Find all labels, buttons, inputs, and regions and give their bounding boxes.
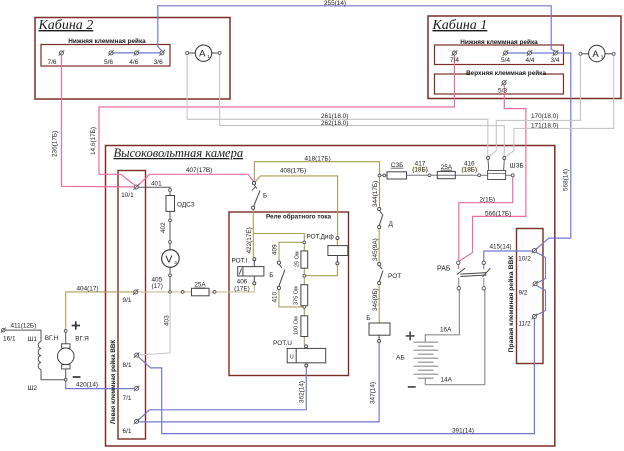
svg-text:404(17): 404(17) — [77, 286, 99, 293]
svg-text:418(17Б): 418(17Б) — [305, 155, 331, 162]
svg-text:7/6: 7/6 — [47, 59, 56, 66]
wire 415(14) blue from РАБ to terminal 10/2 — [484, 251, 533, 261]
svg-text:409: 409 — [271, 244, 278, 255]
wire 407(17В) pink from 10/1 to switch Б junction — [99, 174, 135, 185]
svg-text:5/4: 5/4 — [501, 57, 510, 64]
wire 408(17Б) olive from switch Б junction to coil РОТ.Диф — [255, 176, 338, 237]
svg-text:347(14): 347(14) — [370, 382, 377, 404]
high-voltage chamber box — [106, 146, 555, 447]
svg-text:АБ: АБ — [396, 354, 405, 361]
label 416 (18Б) — [461, 166, 478, 172]
svg-text:407(17В): 407(17В) — [186, 167, 212, 174]
battery АБ — [414, 341, 439, 343]
svg-text:236(17Б): 236(17Б) — [52, 131, 59, 157]
svg-text:7/4: 7/4 — [450, 57, 459, 64]
svg-text:9/1: 9/1 — [122, 297, 131, 304]
terminal 8/1 — [134, 352, 140, 358]
svg-text:255(14): 255(14) — [324, 0, 346, 7]
wire 347(14) blue from coil Б to terminal 6/1 — [139, 342, 379, 422]
shunt ШЗБ — [488, 171, 506, 180]
svg-text:408(17Б): 408(17Б) — [280, 168, 306, 175]
wire 566(17Б) pink from terminal 5/3 to contactor РАБ — [459, 85, 526, 262]
svg-text:Высоковольтная камера: Высоковольтная камера — [114, 146, 244, 160]
fuse 25А left — [181, 291, 184, 294]
minus sign battery — [408, 386, 416, 388]
fuse 25А right — [437, 171, 455, 178]
wire 344(17Б) olive from СЗБ node to switch Д — [379, 177, 381, 208]
svg-text:Б: Б — [269, 272, 273, 279]
wire 236(17Б) pink from terminal 7/6 to terminal 10/1 — [62, 55, 135, 187]
svg-text:100 Ом: 100 Ом — [294, 316, 300, 335]
resistor 375 Ом — [301, 285, 308, 306]
svg-text:Ш2: Ш2 — [28, 385, 38, 392]
svg-text:345(9А): 345(9А) — [372, 238, 379, 261]
terminal 10/2 — [532, 248, 538, 254]
generator armature ВГ.Я — [64, 330, 67, 333]
wire СЗБ to fuse to shunt horizontal — [381, 174, 387, 176]
wire 420(14) blue from generator minus to terminal 7/1 — [66, 381, 135, 389]
svg-text:Кабина 1: Кабина 1 — [432, 18, 488, 33]
resistor 100 Ом — [301, 316, 308, 337]
switch Д — [378, 207, 381, 210]
terminal 9/2 — [532, 281, 538, 287]
terminal 16/1 — [1, 328, 6, 333]
label 417 (18Б) — [412, 166, 429, 172]
switch РОТ — [378, 263, 381, 266]
svg-text:415(14): 415(14) — [490, 243, 512, 250]
svg-text:375 Ом: 375 Ом — [294, 286, 300, 305]
reverse current relay box — [229, 212, 349, 376]
terminal 11/2 — [532, 314, 538, 320]
svg-text:171(18.0): 171(18.0) — [531, 123, 558, 130]
svg-text:Кабина 2: Кабина 2 — [38, 18, 94, 33]
svg-text:9/2: 9/2 — [518, 290, 527, 297]
wire 170(18.0) grey from shunt to cabin1 ammeter — [489, 55, 580, 157]
svg-text:РОТ.Диф: РОТ.Диф — [307, 234, 334, 241]
svg-text:2(1Б): 2(1Б) — [480, 197, 496, 204]
wire 2(1Б) pink from shunt ШЗБ to contactor РАБ — [459, 177, 513, 261]
node below 25 Ом — [303, 274, 306, 277]
wire 391(14) blue from 11/2 to terminal 8/1 — [138, 318, 534, 433]
svg-text:ВГ.Я: ВГ.Я — [75, 335, 89, 342]
terminal 5/6 — [108, 50, 114, 56]
wire 404(17) olive from generator plus to terminal 9/1 — [66, 292, 134, 330]
coil РОТ.U — [305, 345, 308, 348]
wire 402 black from ОДСЗ to voltmeter — [169, 222, 171, 241]
label cabin1 upper strip — [470, 70, 543, 76]
wire 409 olive from node to switch Б2 — [279, 242, 304, 261]
left terminal rail box — [118, 171, 146, 440]
wire 401 black from 10/1 to resistor ОДСЗ — [138, 187, 170, 188]
svg-text:Нижняя клеммная рейка: Нижняя клеммная рейка — [68, 37, 146, 45]
svg-text:25А: 25А — [194, 282, 206, 289]
svg-text:362(14): 362(14) — [298, 381, 305, 403]
generator field winding ВГ.Н — [38, 342, 41, 370]
wire 410 olive from switch Б2 to resistor node — [279, 290, 304, 307]
svg-text:566(17Б): 566(17Б) — [485, 210, 511, 217]
svg-text:Реле обратного тока: Реле обратного тока — [266, 213, 332, 221]
wire 406(17Е) olive from fuse to coil РОТ.I — [209, 285, 254, 292]
svg-text:403: 403 — [163, 315, 170, 326]
ammeter A1 cabin 2 — [186, 52, 189, 55]
svg-text:3/6: 3/6 — [154, 59, 163, 66]
svg-text:16А: 16А — [440, 326, 452, 333]
svg-text:7/1: 7/1 — [122, 395, 131, 402]
wire 345(9А) olive from switch Д to switch РОТ — [378, 229, 380, 263]
switch Б2 in relay box — [277, 261, 280, 264]
wire 362(14) blue from coil РОТ.U to terminal 6/1 — [138, 367, 306, 420]
svg-text:4/6: 4/6 — [129, 59, 138, 66]
terminal 5/3 — [501, 80, 507, 86]
svg-text:406: 406 — [237, 278, 248, 285]
cabin 1 enclosure box — [428, 16, 621, 99]
minus sign generator — [73, 376, 81, 378]
contactor РАБ — [458, 265, 460, 270]
terminal 4/4 — [527, 50, 533, 56]
svg-text:Правая клеммная рейка ВВК: Правая клеммная рейка ВВК — [507, 255, 515, 353]
svg-text:РОТ.U: РОТ.U — [273, 340, 292, 347]
wire 411(12Б) from terminal 16/1 to winding ВГ.Н — [5, 330, 41, 341]
svg-text:346(9Б): 346(9Б) — [372, 288, 379, 311]
svg-text:Б: Б — [263, 193, 267, 200]
resistor СЗБ — [378, 174, 381, 177]
svg-text:420(14): 420(14) — [76, 381, 98, 388]
svg-text:262(18.0): 262(18.0) — [321, 120, 348, 127]
wire blue zigzag 10/2 to 9/2 to 11/2 — [536, 252, 546, 283]
wire 403 grey from voltmeter junction to terminal 8/1 — [138, 292, 170, 355]
terminal 6/1 — [134, 419, 140, 425]
svg-text:Д: Д — [389, 221, 394, 228]
plus sign battery — [406, 335, 415, 337]
plus sign generator — [72, 325, 80, 327]
svg-text:РОТ: РОТ — [388, 273, 401, 280]
coil Б — [369, 323, 390, 335]
svg-text:391(14): 391(14) — [452, 427, 474, 434]
svg-text:ВГ.Н: ВГ.Н — [45, 335, 59, 342]
svg-text:ОДСЗ: ОДСЗ — [177, 202, 195, 209]
wire 405(17) olive from 9/1 through voltmeter junction to fuse — [138, 291, 192, 293]
wire resistor chain vertical — [303, 242, 305, 251]
svg-text:РАБ: РАБ — [437, 266, 451, 273]
svg-text:ШЗБ: ШЗБ — [510, 162, 524, 169]
node above 25 Ом — [303, 241, 306, 244]
svg-text:СЗБ: СЗБ — [391, 162, 404, 169]
svg-text:5/6: 5/6 — [104, 59, 113, 66]
svg-text:Левая клеммная рейка ВВК: Левая клеммная рейка ВВК — [110, 340, 117, 425]
svg-text:10/2: 10/2 — [518, 256, 531, 263]
svg-text:401: 401 — [151, 180, 162, 187]
ammeter A1 cabin 1 — [579, 52, 582, 55]
svg-text:6/1: 6/1 — [122, 428, 131, 435]
terminal 5/4 — [503, 50, 509, 56]
wire 16А grey from battery plus to РАБ — [425, 290, 459, 342]
terminal 3/4 — [553, 50, 559, 56]
svg-text:(18Б): (18Б) — [412, 166, 428, 173]
cabin 2 lower terminal strip box — [41, 45, 170, 67]
svg-text:А: А — [199, 49, 206, 60]
svg-text:U: U — [290, 355, 294, 361]
wire blue link 5/6-4/6-3/6 — [111, 52, 162, 54]
resistor 25 Ом — [301, 251, 308, 268]
wire 418(17Б) olive from switch Б junction to СЗБ node — [254, 162, 379, 182]
wire 261(18.0) grey from cabin2 ammeter to shunt — [187, 55, 488, 157]
node voltmeter junction — [169, 291, 172, 294]
svg-text:Верхняя клеммная рейка: Верхняя клеммная рейка — [466, 69, 546, 77]
svg-text:344(17Б): 344(17Б) — [372, 181, 379, 207]
cabin 1 lower terminal strip box — [435, 45, 564, 65]
terminal 3/6 — [159, 50, 165, 56]
cabin 2 enclosure box — [35, 18, 230, 100]
wire 568(14) blue from 3/4 down to terminal 10/2 — [536, 53, 571, 249]
voltmeter V3 — [169, 241, 172, 244]
node below 375 Ом — [303, 306, 306, 309]
svg-text:А: А — [592, 49, 599, 60]
svg-text:Б: Б — [366, 315, 370, 322]
svg-text:4/4: 4/4 — [525, 57, 534, 64]
wire from node to coil РОТ.Диф bottom — [304, 265, 337, 276]
svg-text:14,6(17Б): 14,6(17Б) — [90, 127, 97, 155]
wire 262(18.0) grey from cabin2 ammeter to shunt — [220, 55, 505, 157]
svg-text:(17): (17) — [152, 283, 163, 290]
wire 171(18.0) grey from shunt to cabin1 ammeter — [505, 55, 613, 157]
wire 14А grey from battery minus to РАБ — [425, 290, 485, 385]
svg-text:568(14): 568(14) — [563, 169, 570, 191]
svg-text:РОТ.I: РОТ.I — [232, 258, 248, 265]
svg-text:11/2: 11/2 — [518, 321, 531, 328]
wire voltmeter to junction — [169, 243, 171, 292]
svg-text:10/1: 10/1 — [121, 192, 134, 199]
switch Б main arm — [254, 185, 257, 189]
coil РОТ.I — [253, 258, 256, 261]
svg-text:411(12Б): 411(12Б) — [11, 323, 37, 330]
svg-text:16/1: 16/1 — [3, 336, 16, 343]
wire 14,6(17Б) pink from terminal 7/4 across to high-voltage chamber — [99, 55, 454, 174]
svg-text:25 Ом: 25 Ом — [295, 251, 301, 267]
wire blue link 5/4-4/4-3/4 — [506, 52, 556, 54]
svg-text:V: V — [165, 254, 172, 266]
svg-text:8/1: 8/1 — [122, 362, 131, 369]
wire 346(9Б) olive from switch РОТ to coil Б — [378, 285, 380, 323]
wire 422(17Е) olive from switch Б to coil РОТ.I — [252, 209, 254, 257]
svg-text:14А: 14А — [441, 376, 453, 383]
terminal 7/4 — [452, 50, 458, 56]
switch Б junction node — [252, 182, 255, 185]
svg-text:3/4: 3/4 — [550, 57, 559, 64]
terminal 4/6 — [134, 50, 140, 56]
svg-text:(17Е): (17Е) — [234, 285, 250, 292]
svg-text:422(17Е): 422(17Е) — [246, 227, 253, 253]
svg-text:5/3: 5/3 — [498, 88, 507, 95]
svg-text:Нижняя клеммная рейка: Нижняя клеммная рейка — [460, 38, 538, 46]
terminal 9/1 — [133, 289, 139, 295]
svg-text:25А: 25А — [441, 164, 453, 171]
right terminal rail box — [517, 229, 544, 364]
terminal 7/1 — [134, 386, 140, 392]
wire 255(14) blue from terminal 3/6 to terminal 3/4 — [158, 6, 556, 52]
svg-text:410: 410 — [271, 291, 278, 302]
wire РОТ.Диф top stub — [336, 240, 338, 246]
svg-text:(18Б): (18Б) — [462, 166, 478, 173]
cabin 1 upper terminal strip box — [435, 74, 564, 94]
svg-text:170(18.0): 170(18.0) — [531, 113, 558, 120]
resistor ОДСЗ — [169, 189, 172, 192]
coil РОТ.Диф — [328, 246, 348, 256]
svg-text:402: 402 — [160, 222, 167, 233]
svg-text:Ш1: Ш1 — [28, 336, 38, 343]
terminal 7/6 — [59, 50, 65, 56]
terminal 10/1 — [133, 184, 139, 190]
